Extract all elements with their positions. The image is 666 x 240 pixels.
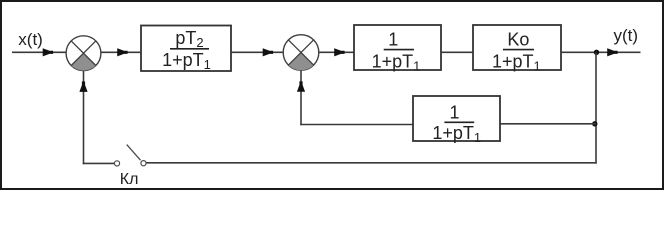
switch Kl contact left <box>114 161 119 166</box>
summing junction S2 <box>283 35 319 71</box>
wire outer feedback bottom <box>146 162 597 164</box>
wire switch to left riser <box>83 162 115 164</box>
wire W3 to output <box>561 51 641 53</box>
svg-text:1+pT1: 1+pT1 <box>372 51 421 73</box>
node output junction dot <box>594 50 599 55</box>
arrow into S2 bottom <box>297 81 305 91</box>
arrow output <box>607 48 617 56</box>
wire W2 to W3 <box>441 51 473 53</box>
switch Kl blade <box>127 145 141 161</box>
switch Kl contact right <box>141 161 146 166</box>
svg-text:1+pT1: 1+pT1 <box>432 123 481 145</box>
arrow S1-W1 <box>117 48 127 56</box>
wire S2 to block W2 <box>319 51 354 53</box>
border frame <box>1 1 663 189</box>
summing junction S1 <box>66 36 101 71</box>
wire inner feedback left <box>300 124 413 126</box>
node feedback tap dot <box>592 121 597 126</box>
svg-text:Ko: Ko <box>507 29 529 49</box>
arrow W1-S2 <box>263 48 273 56</box>
arrow input <box>43 48 53 56</box>
svg-text:Кл: Кл <box>120 171 139 188</box>
arrow S2-W2 <box>334 48 344 56</box>
svg-text:1+pT1: 1+pT1 <box>162 50 211 72</box>
svg-text:x(t): x(t) <box>18 30 43 49</box>
wire W1 to S2 <box>231 51 283 53</box>
wire S1 to block W1 <box>101 51 141 53</box>
block W1 pT2/(1+pT1) <box>141 26 231 73</box>
svg-text:1+pT1: 1+pT1 <box>492 51 541 73</box>
block W2 1/(1+pT1) <box>354 25 441 73</box>
block W3 Ko/(1+pT1) <box>473 25 561 73</box>
wire input <box>12 51 67 53</box>
block W4 1/(1+pT1) feedback <box>413 96 500 145</box>
svg-text:y(t): y(t) <box>614 26 639 45</box>
wire inner feedback right <box>500 123 596 125</box>
wire left riser into S1 <box>83 71 85 164</box>
svg-text:1: 1 <box>388 29 398 49</box>
svg-text:1: 1 <box>449 102 459 122</box>
wire feedback vertical drop <box>595 52 597 163</box>
wire riser into S2 <box>300 70 302 125</box>
arrow into S1 bottom <box>79 82 87 92</box>
